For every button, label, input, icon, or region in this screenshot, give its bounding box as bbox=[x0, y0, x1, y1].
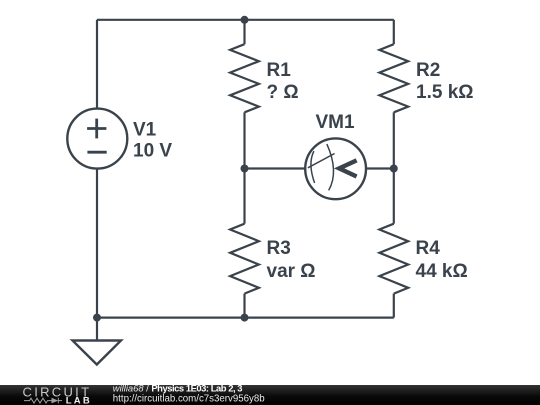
svg-text:R1: R1 bbox=[267, 60, 292, 81]
svg-text:var Ω: var Ω bbox=[267, 261, 316, 282]
wire middle branch top lead bbox=[243, 20, 245, 44]
wire right rail bottom lead bbox=[393, 294, 395, 318]
junction node mid-right bbox=[390, 165, 398, 173]
resistor R1 bbox=[230, 44, 259, 112]
resistor R3 bbox=[230, 224, 259, 294]
logo diode triangle bbox=[52, 398, 59, 404]
resistor R4 bbox=[379, 224, 408, 294]
voltmeter VM1 bbox=[305, 138, 366, 199]
wire middle branch mid lead bbox=[243, 112, 245, 168]
voltage source V1 bbox=[67, 109, 127, 169]
wire right rail lower lead bbox=[393, 169, 395, 224]
wire right rail top lead bbox=[393, 20, 395, 44]
wire top rail bbox=[97, 19, 394, 21]
svg-text:10 V: 10 V bbox=[133, 140, 172, 161]
logo schematic line bbox=[24, 398, 62, 404]
wire voltmeter right bbox=[366, 167, 394, 169]
wire ground stub bbox=[96, 318, 98, 341]
wire bottom rail bbox=[97, 317, 394, 319]
wire middle branch bottom lead bbox=[243, 294, 245, 318]
resistor R2 bbox=[379, 44, 408, 112]
svg-text:R3: R3 bbox=[267, 238, 291, 259]
svg-text:R2: R2 bbox=[416, 60, 440, 81]
svg-text:44 kΩ: 44 kΩ bbox=[416, 261, 468, 282]
svg-text:V1: V1 bbox=[133, 119, 157, 140]
ground bbox=[73, 341, 122, 365]
wire left rail top bbox=[96, 20, 98, 109]
svg-text:? Ω: ? Ω bbox=[267, 82, 299, 103]
junction node mid-left bbox=[241, 165, 249, 173]
wire left rail bottom bbox=[96, 169, 98, 318]
svg-text:willia68 / Physics 1E03: Lab 2: willia68 / Physics 1E03: Lab 2, 3 bbox=[113, 382, 242, 393]
wire voltmeter left bbox=[245, 167, 306, 169]
junction node top bbox=[241, 16, 249, 24]
svg-text:VM1: VM1 bbox=[316, 112, 356, 133]
svg-text:http://circuitlab.com/c7s3erv9: http://circuitlab.com/c7s3erv956y8b bbox=[113, 393, 265, 404]
wire middle branch lower lead bbox=[243, 169, 245, 224]
svg-text:R4: R4 bbox=[416, 238, 441, 259]
junction node bottom-mid bbox=[241, 314, 249, 322]
wire right rail mid lead bbox=[393, 112, 395, 168]
svg-text:1.5 kΩ: 1.5 kΩ bbox=[416, 82, 474, 103]
junction node bottom-left bbox=[93, 314, 101, 322]
svg-text:LAB: LAB bbox=[66, 395, 92, 405]
